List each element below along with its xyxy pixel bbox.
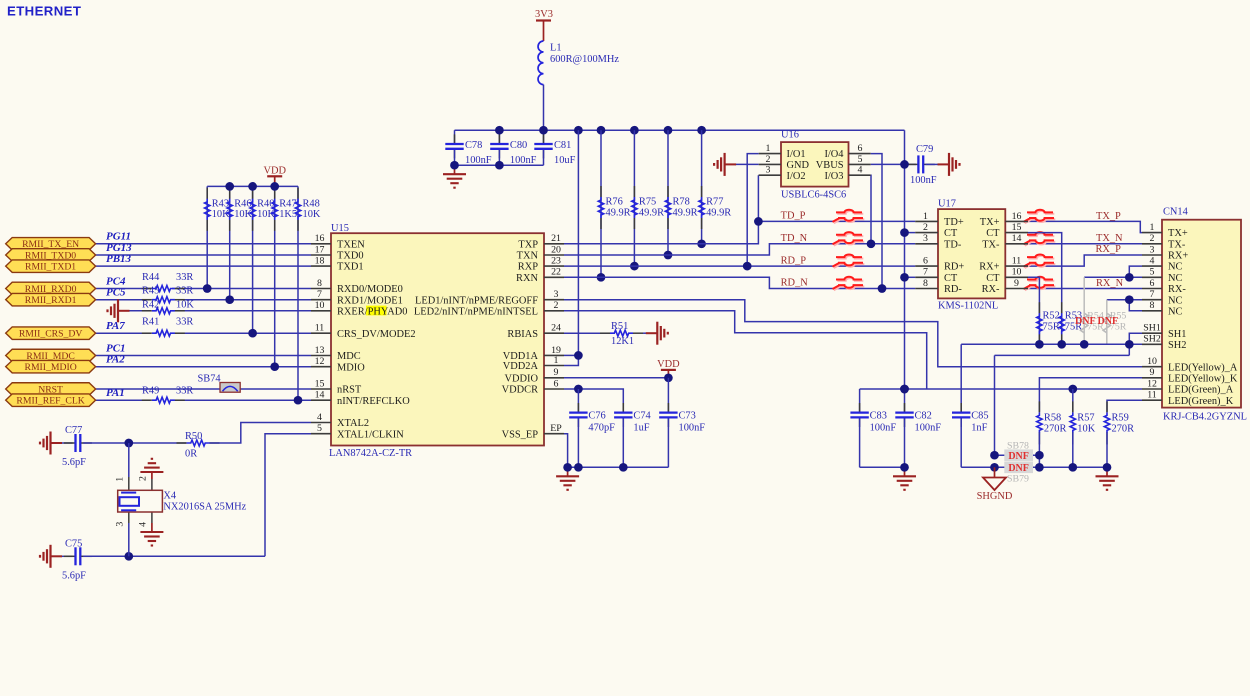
svg-text:4: 4 xyxy=(1150,256,1155,267)
svg-text:8: 8 xyxy=(923,278,928,289)
svg-text:VDDIO: VDDIO xyxy=(505,373,539,384)
svg-text:3: 3 xyxy=(1150,244,1155,255)
svg-text:C77: C77 xyxy=(65,425,82,436)
svg-text:5: 5 xyxy=(317,423,322,434)
svg-text:3V3: 3V3 xyxy=(535,9,553,20)
svg-text:CN14: CN14 xyxy=(1163,207,1189,218)
svg-text:RXD0/MODE0: RXD0/MODE0 xyxy=(337,284,403,295)
svg-text:14: 14 xyxy=(1012,233,1022,244)
svg-text:R77: R77 xyxy=(706,197,723,208)
svg-text:TD-: TD- xyxy=(944,239,962,250)
svg-text:RX+: RX+ xyxy=(1168,251,1188,262)
svg-text:C75: C75 xyxy=(65,538,82,549)
svg-text:11: 11 xyxy=(1012,256,1022,267)
svg-text:SB78: SB78 xyxy=(1007,441,1029,452)
svg-text:PC4: PC4 xyxy=(106,275,126,287)
svg-text:33R: 33R xyxy=(176,272,193,283)
svg-text:TXN: TXN xyxy=(517,251,539,262)
svg-text:1K5: 1K5 xyxy=(279,209,297,220)
svg-text:6: 6 xyxy=(923,256,928,267)
svg-text:LED(Green)_A: LED(Green)_A xyxy=(1168,385,1234,396)
svg-text:PG11: PG11 xyxy=(106,231,131,243)
svg-text:9: 9 xyxy=(1014,278,1019,289)
svg-text:I/O1: I/O1 xyxy=(787,149,806,160)
svg-text:22: 22 xyxy=(551,267,561,278)
svg-text:TXEN: TXEN xyxy=(337,239,365,250)
svg-text:R49: R49 xyxy=(142,386,159,397)
svg-text:RD_P: RD_P xyxy=(781,255,807,266)
svg-text:RD_N: RD_N xyxy=(781,278,809,289)
svg-text:RX_P: RX_P xyxy=(1096,244,1122,255)
svg-text:VDD: VDD xyxy=(263,166,286,177)
svg-text:CT: CT xyxy=(944,273,958,284)
svg-text:10K: 10K xyxy=(234,209,252,220)
svg-text:RMII_REF_CLK: RMII_REF_CLK xyxy=(16,396,84,407)
svg-text:R75: R75 xyxy=(639,197,656,208)
svg-text:CT: CT xyxy=(986,273,1000,284)
svg-text:CT: CT xyxy=(944,228,958,239)
svg-text:RBIAS: RBIAS xyxy=(507,329,538,340)
svg-text:SHGND: SHGND xyxy=(977,491,1013,502)
svg-text:I/O2: I/O2 xyxy=(787,171,806,182)
svg-text:16: 16 xyxy=(1012,211,1022,222)
svg-text:PC1: PC1 xyxy=(106,342,126,354)
svg-text:DNF: DNF xyxy=(1008,463,1029,474)
svg-text:12: 12 xyxy=(1147,378,1157,389)
svg-text:9: 9 xyxy=(1150,367,1155,378)
svg-text:MDIO: MDIO xyxy=(337,362,365,373)
svg-text:TX+: TX+ xyxy=(1168,228,1188,239)
svg-text:XTAL2: XTAL2 xyxy=(337,418,369,429)
svg-text:R41: R41 xyxy=(142,317,159,328)
svg-text:RXP: RXP xyxy=(518,262,538,273)
svg-text:23: 23 xyxy=(551,256,561,267)
svg-text:TX+: TX+ xyxy=(980,217,1000,228)
svg-text:SB74: SB74 xyxy=(198,373,222,384)
svg-text:KRJ-CB4.2GYZNL: KRJ-CB4.2GYZNL xyxy=(1163,411,1247,422)
svg-text:CRS_DV/MODE2: CRS_DV/MODE2 xyxy=(337,329,416,340)
svg-text:9: 9 xyxy=(554,367,559,378)
svg-text:R47: R47 xyxy=(279,198,296,209)
svg-text:3: 3 xyxy=(554,289,559,300)
svg-text:LED2/nINT/nPME/nINTSEL: LED2/nINT/nPME/nINTSEL xyxy=(414,306,538,317)
svg-text:10: 10 xyxy=(315,300,325,311)
svg-text:20: 20 xyxy=(551,244,561,255)
svg-text:49.9R: 49.9R xyxy=(673,208,698,219)
svg-text:100nF: 100nF xyxy=(910,175,937,186)
svg-text:PB13: PB13 xyxy=(106,253,132,265)
svg-text:12K1: 12K1 xyxy=(611,336,634,347)
svg-text:TD_N: TD_N xyxy=(781,233,808,244)
svg-text:RMII_MDIO: RMII_MDIO xyxy=(24,362,76,373)
svg-text:RXER/PHYAD0: RXER/PHYAD0 xyxy=(337,306,407,317)
svg-text:49.9R: 49.9R xyxy=(606,208,631,219)
svg-text:49.9R: 49.9R xyxy=(639,208,664,219)
svg-text:10K: 10K xyxy=(1077,424,1095,435)
svg-text:13: 13 xyxy=(315,345,325,356)
svg-text:GND: GND xyxy=(787,160,810,171)
svg-text:ETHERNET: ETHERNET xyxy=(7,4,81,19)
svg-text:VBUS: VBUS xyxy=(816,160,844,171)
svg-text:10K: 10K xyxy=(212,209,230,220)
svg-text:10: 10 xyxy=(1147,356,1157,367)
svg-text:MDC: MDC xyxy=(337,351,361,362)
svg-text:RD-: RD- xyxy=(944,284,962,295)
svg-text:18: 18 xyxy=(315,256,325,267)
svg-text:1: 1 xyxy=(115,477,126,482)
svg-text:4: 4 xyxy=(858,165,863,176)
svg-text:11: 11 xyxy=(1147,390,1157,401)
svg-text:R76: R76 xyxy=(606,197,623,208)
svg-text:R51: R51 xyxy=(611,321,628,332)
svg-text:21: 21 xyxy=(551,233,561,244)
svg-text:1: 1 xyxy=(766,143,771,154)
svg-text:KMS-1102NL: KMS-1102NL xyxy=(938,300,998,311)
svg-text:X4: X4 xyxy=(163,490,177,501)
svg-text:49.9R: 49.9R xyxy=(706,208,731,219)
svg-text:VDD: VDD xyxy=(657,359,680,370)
svg-text:R50: R50 xyxy=(185,431,202,442)
svg-text:R48: R48 xyxy=(303,198,320,209)
svg-text:270R: 270R xyxy=(1112,424,1135,435)
svg-text:R78: R78 xyxy=(673,197,690,208)
svg-text:NX2016SA 25MHz: NX2016SA 25MHz xyxy=(163,502,246,513)
svg-text:SH2: SH2 xyxy=(1143,334,1161,345)
svg-text:1: 1 xyxy=(554,355,559,366)
svg-text:470pF: 470pF xyxy=(588,422,615,433)
svg-text:4: 4 xyxy=(317,412,322,423)
svg-text:EP: EP xyxy=(550,423,562,434)
svg-text:10K: 10K xyxy=(303,209,321,220)
svg-text:C82: C82 xyxy=(915,410,932,421)
svg-text:10K: 10K xyxy=(176,299,194,310)
svg-text:TX-: TX- xyxy=(1168,239,1186,250)
svg-text:C79: C79 xyxy=(916,144,933,155)
svg-text:33R: 33R xyxy=(176,317,193,328)
svg-text:270R: 270R xyxy=(1044,424,1067,435)
svg-text:RMII_TXD1: RMII_TXD1 xyxy=(25,261,76,272)
svg-text:C74: C74 xyxy=(633,410,651,421)
svg-text:15: 15 xyxy=(1012,222,1022,233)
svg-text:U16: U16 xyxy=(781,130,799,141)
svg-text:2: 2 xyxy=(554,300,559,311)
svg-text:2: 2 xyxy=(137,476,148,481)
svg-text:10uF: 10uF xyxy=(554,155,576,166)
svg-text:5: 5 xyxy=(1150,267,1155,278)
svg-text:R52: R52 xyxy=(1043,310,1060,321)
svg-text:C81: C81 xyxy=(554,140,571,151)
svg-text:RXD1/MODE1: RXD1/MODE1 xyxy=(337,295,403,306)
svg-text:RD+: RD+ xyxy=(944,262,964,273)
svg-text:RXN: RXN xyxy=(516,273,538,284)
svg-text:17: 17 xyxy=(315,244,325,255)
svg-text:VSS_EP: VSS_EP xyxy=(502,429,539,440)
svg-text:LAN8742A-CZ-TR: LAN8742A-CZ-TR xyxy=(329,448,412,459)
svg-text:RX_N: RX_N xyxy=(1096,278,1124,289)
svg-text:2: 2 xyxy=(1150,233,1155,244)
svg-text:RX+: RX+ xyxy=(979,262,999,273)
svg-text:CT: CT xyxy=(986,228,1000,239)
svg-text:TXP: TXP xyxy=(518,239,538,250)
svg-text:nINT/REFCLKO: nINT/REFCLKO xyxy=(337,396,410,407)
svg-text:100nF: 100nF xyxy=(870,422,897,433)
svg-text:3: 3 xyxy=(115,522,126,527)
svg-text:LED(Green)_K: LED(Green)_K xyxy=(1168,396,1234,407)
svg-text:5.6pF: 5.6pF xyxy=(62,457,86,468)
svg-text:LED1/nINT/nPME/REGOFF: LED1/nINT/nPME/REGOFF xyxy=(415,295,538,306)
svg-text:RMII_RXD1: RMII_RXD1 xyxy=(25,295,77,306)
svg-text:10: 10 xyxy=(1012,267,1022,278)
svg-text:7: 7 xyxy=(317,289,322,300)
svg-text:DNF: DNF xyxy=(1098,316,1119,327)
svg-text:16: 16 xyxy=(315,233,325,244)
svg-text:USBLC6-4SC6: USBLC6-4SC6 xyxy=(781,189,846,200)
svg-text:8: 8 xyxy=(1150,300,1155,311)
svg-text:TD_P: TD_P xyxy=(781,211,806,222)
svg-text:SH1: SH1 xyxy=(1168,329,1186,340)
svg-text:TX_P: TX_P xyxy=(1096,211,1121,222)
svg-text:1: 1 xyxy=(923,211,928,222)
svg-text:DNF: DNF xyxy=(1075,316,1096,327)
svg-text:PA1: PA1 xyxy=(106,387,125,399)
svg-text:TXD1: TXD1 xyxy=(337,262,364,273)
svg-text:I/O3: I/O3 xyxy=(824,171,843,182)
svg-text:PC5: PC5 xyxy=(106,287,126,299)
svg-text:C76: C76 xyxy=(588,410,605,421)
svg-text:5.6pF: 5.6pF xyxy=(62,570,86,581)
svg-text:LED(Yellow)_K: LED(Yellow)_K xyxy=(1168,373,1238,384)
svg-text:5: 5 xyxy=(858,154,863,165)
svg-text:6: 6 xyxy=(554,378,559,389)
svg-text:TD+: TD+ xyxy=(944,217,964,228)
svg-text:R57: R57 xyxy=(1077,412,1094,423)
svg-text:7: 7 xyxy=(1150,289,1155,300)
svg-text:R42: R42 xyxy=(142,299,159,310)
svg-text:L1: L1 xyxy=(550,42,562,53)
svg-text:7: 7 xyxy=(923,267,928,278)
svg-text:C85: C85 xyxy=(971,410,988,421)
svg-text:VDD2A: VDD2A xyxy=(503,361,539,372)
svg-text:1uF: 1uF xyxy=(633,422,649,433)
svg-text:SB79: SB79 xyxy=(1007,473,1029,484)
svg-text:SH2: SH2 xyxy=(1168,340,1186,351)
svg-text:10K: 10K xyxy=(257,209,275,220)
svg-text:11: 11 xyxy=(315,323,325,334)
svg-text:14: 14 xyxy=(315,390,325,401)
svg-text:U17: U17 xyxy=(938,199,956,210)
svg-text:RX-: RX- xyxy=(982,284,1000,295)
svg-text:NC: NC xyxy=(1168,262,1183,273)
svg-text:LED(Yellow)_A: LED(Yellow)_A xyxy=(1168,362,1238,373)
svg-text:33R: 33R xyxy=(176,386,193,397)
svg-text:1: 1 xyxy=(1150,222,1155,233)
svg-text:75R: 75R xyxy=(1043,322,1060,333)
svg-text:C73: C73 xyxy=(679,410,696,421)
svg-text:NC: NC xyxy=(1168,306,1183,317)
svg-text:4: 4 xyxy=(137,522,148,527)
svg-text:C80: C80 xyxy=(510,140,527,151)
svg-text:I/O4: I/O4 xyxy=(824,149,844,160)
svg-text:VDDCR: VDDCR xyxy=(502,385,538,396)
svg-text:3: 3 xyxy=(766,165,771,176)
svg-text:100nF: 100nF xyxy=(915,422,942,433)
svg-text:PA2: PA2 xyxy=(106,354,125,366)
svg-text:R58: R58 xyxy=(1044,412,1061,423)
svg-text:3: 3 xyxy=(923,233,928,244)
svg-text:2: 2 xyxy=(766,154,771,165)
svg-text:TXD0: TXD0 xyxy=(337,251,364,262)
svg-text:12: 12 xyxy=(315,356,325,367)
svg-text:U15: U15 xyxy=(331,223,349,234)
svg-text:15: 15 xyxy=(315,378,325,389)
svg-text:100nF: 100nF xyxy=(679,422,706,433)
svg-text:8: 8 xyxy=(317,278,322,289)
svg-text:TX_N: TX_N xyxy=(1096,233,1123,244)
svg-text:1nF: 1nF xyxy=(971,422,987,433)
svg-text:24: 24 xyxy=(551,323,561,334)
svg-text:R59: R59 xyxy=(1112,412,1129,423)
svg-text:2: 2 xyxy=(923,222,928,233)
svg-text:0R: 0R xyxy=(185,449,197,460)
svg-text:NC: NC xyxy=(1168,295,1183,306)
svg-text:nRST: nRST xyxy=(337,385,362,396)
svg-text:6: 6 xyxy=(858,143,863,154)
svg-text:R44: R44 xyxy=(142,272,160,283)
svg-text:33R: 33R xyxy=(176,286,193,297)
svg-text:PA7: PA7 xyxy=(106,320,125,332)
svg-text:RMII_CRS_DV: RMII_CRS_DV xyxy=(19,329,83,340)
svg-text:SH1: SH1 xyxy=(1143,323,1161,334)
svg-text:C78: C78 xyxy=(465,140,482,151)
svg-text:XTAL1/CLKIN: XTAL1/CLKIN xyxy=(337,429,404,440)
svg-text:DNF: DNF xyxy=(1008,451,1029,462)
svg-text:RX-: RX- xyxy=(1168,284,1186,295)
svg-text:600R@100MHz: 600R@100MHz xyxy=(550,54,619,65)
svg-text:R45: R45 xyxy=(142,286,159,297)
svg-text:C83: C83 xyxy=(870,410,887,421)
svg-text:TX-: TX- xyxy=(982,239,1000,250)
svg-text:NC: NC xyxy=(1168,273,1183,284)
svg-text:6: 6 xyxy=(1150,278,1155,289)
